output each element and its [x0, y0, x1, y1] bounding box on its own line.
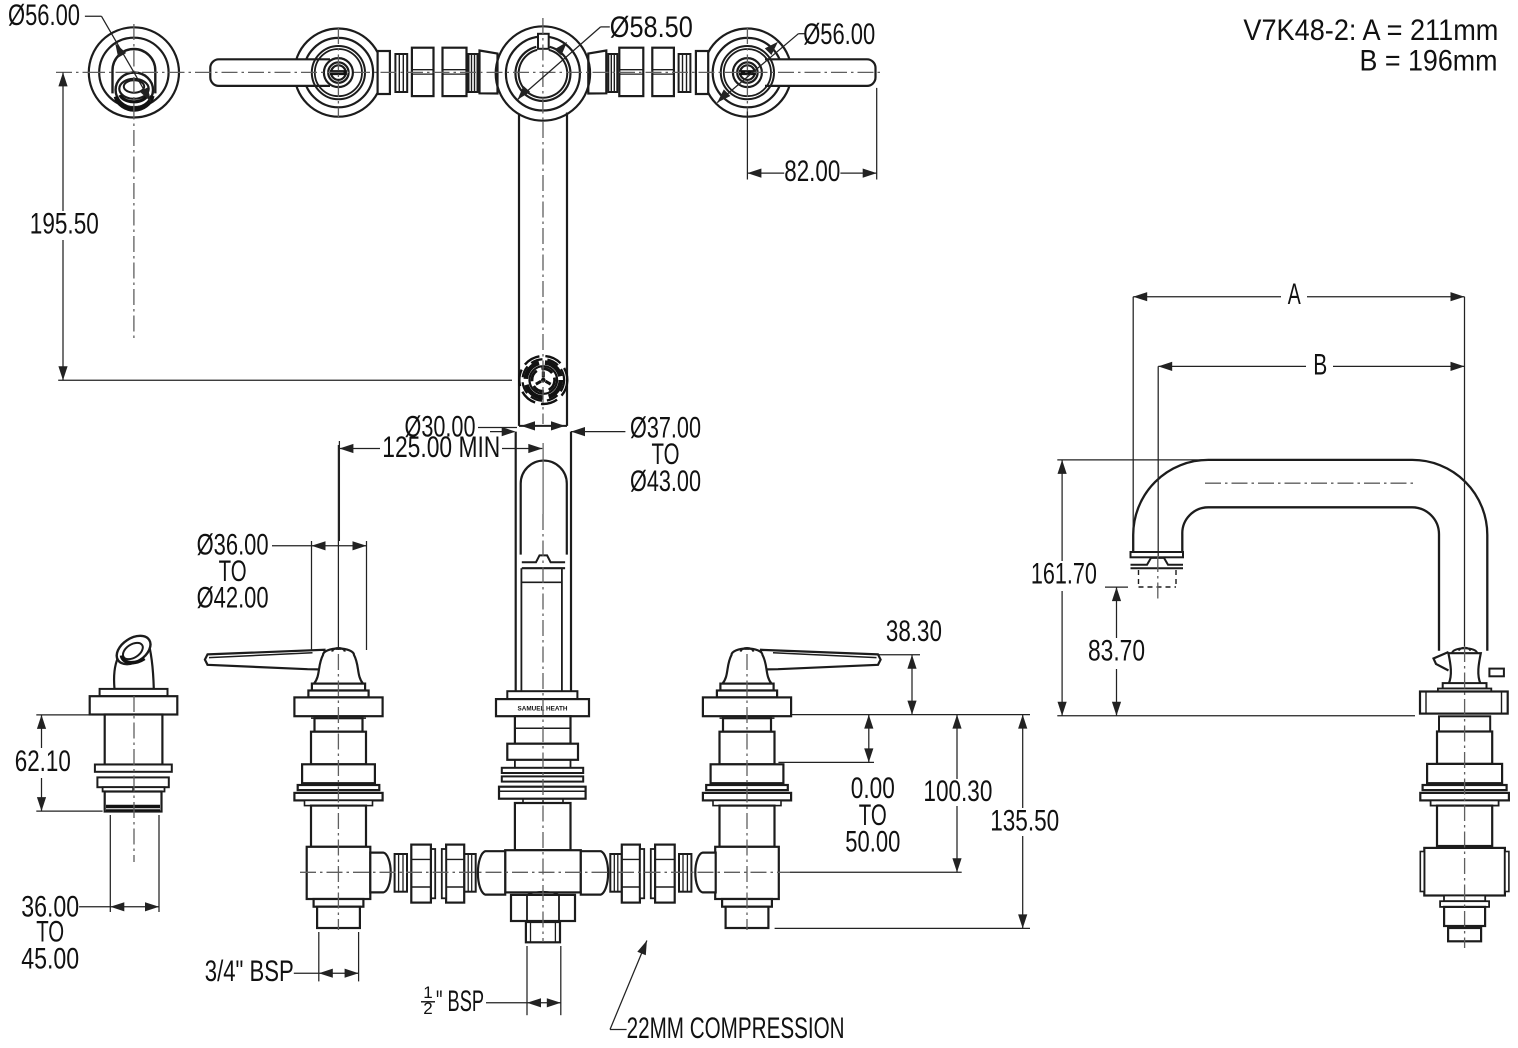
svg-text:A: A	[1288, 278, 1301, 311]
svg-text:V7K48-2: A = 211mm: V7K48-2: A = 211mm	[1243, 14, 1498, 47]
svg-text:161.70: 161.70	[1031, 558, 1097, 591]
svg-text:50.00: 50.00	[845, 826, 900, 859]
svg-text:38.30: 38.30	[886, 615, 942, 648]
svg-text:B = 196mm: B = 196mm	[1360, 45, 1498, 78]
svg-text:Ø58.50: Ø58.50	[610, 11, 693, 44]
svg-text:3/4" BSP: 3/4" BSP	[205, 955, 294, 988]
svg-text:Ø42.00: Ø42.00	[197, 582, 269, 615]
svg-text:62.10: 62.10	[15, 745, 71, 778]
svg-text:Ø43.00: Ø43.00	[630, 465, 701, 498]
svg-text:195.50: 195.50	[30, 207, 99, 240]
svg-text:B: B	[1313, 348, 1327, 381]
svg-text:82.00: 82.00	[784, 155, 840, 188]
svg-text:Ø56.00: Ø56.00	[8, 0, 80, 32]
svg-text:100.30: 100.30	[923, 775, 992, 808]
svg-text:Ø56.00: Ø56.00	[803, 18, 875, 51]
svg-text:22MM COMPRESSION: 22MM COMPRESSION	[627, 1012, 845, 1045]
svg-text:125.00 MIN: 125.00 MIN	[382, 431, 500, 464]
svg-text:135.50: 135.50	[990, 804, 1059, 837]
svg-text:" BSP: " BSP	[436, 985, 484, 1018]
svg-text:83.70: 83.70	[1088, 635, 1145, 668]
svg-text:45.00: 45.00	[21, 942, 79, 975]
